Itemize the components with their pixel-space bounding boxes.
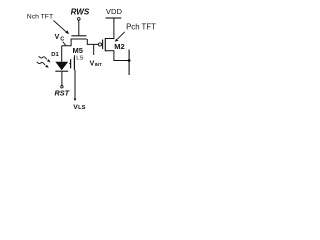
- capacitor LS left plate: [70, 59, 72, 68]
- svg-text:D1: D1: [51, 52, 59, 58]
- power VDD bar: [106, 17, 122, 19]
- node V_INT stub wire: [93, 44, 95, 55]
- svg-text:C: C: [60, 36, 64, 42]
- junction dot: [128, 59, 131, 62]
- transistor M5 gate bar: [71, 35, 86, 37]
- svg-text:Pch TFT: Pch TFT: [126, 23, 156, 32]
- wire RWS to M5 gate: [78, 20, 80, 35]
- wire capacitor to VLS: [74, 70, 76, 99]
- wire M2 drain down: [105, 51, 129, 61]
- svg-text:M2: M2: [114, 42, 124, 51]
- svg-text:RST: RST: [55, 89, 70, 98]
- photodiode D1 triangle: [55, 62, 68, 70]
- light arrow 1: [39, 56, 47, 59]
- svg-text:VDD: VDD: [106, 7, 123, 16]
- leader line V_C to wire: [63, 42, 66, 46]
- capacitor LS left plate stub: [69, 63, 70, 65]
- terminal RST circle: [61, 86, 63, 88]
- transistor M2 gate bubble: [98, 43, 101, 46]
- light arrow 2: [37, 62, 45, 65]
- wire V_C node down to photodiode: [61, 46, 63, 62]
- capacitor LS top stub: [74, 55, 76, 57]
- svg-text:LS: LS: [78, 105, 85, 111]
- transistor M2 gate bar: [102, 40, 104, 50]
- transistor M2 channel bar: [104, 38, 106, 51]
- leader arrow from Pch TFT label to M2: [115, 32, 125, 42]
- output column wire: [128, 50, 130, 76]
- svg-text:INT: INT: [95, 62, 102, 67]
- svg-text:Nch TFT: Nch TFT: [27, 13, 53, 20]
- VLS wire end arrowhead: [74, 98, 77, 101]
- leader arrow from Nch TFT label to M5: [54, 21, 70, 35]
- wire M5 drain leg (right): [87, 39, 98, 44]
- wire M2 source to VDD: [105, 18, 114, 38]
- wire M5 source leg (left): [62, 39, 71, 46]
- svg-text:V: V: [55, 34, 60, 41]
- svg-text:LS: LS: [76, 55, 83, 61]
- photodiode D1 cathode bar: [55, 70, 68, 72]
- transistor M5 channel bar: [71, 38, 87, 40]
- svg-text:RWS: RWS: [71, 7, 90, 16]
- svg-text:M5: M5: [73, 46, 83, 55]
- capacitor LS right plate: [73, 57, 75, 70]
- wire photodiode to RST terminal: [61, 72, 63, 86]
